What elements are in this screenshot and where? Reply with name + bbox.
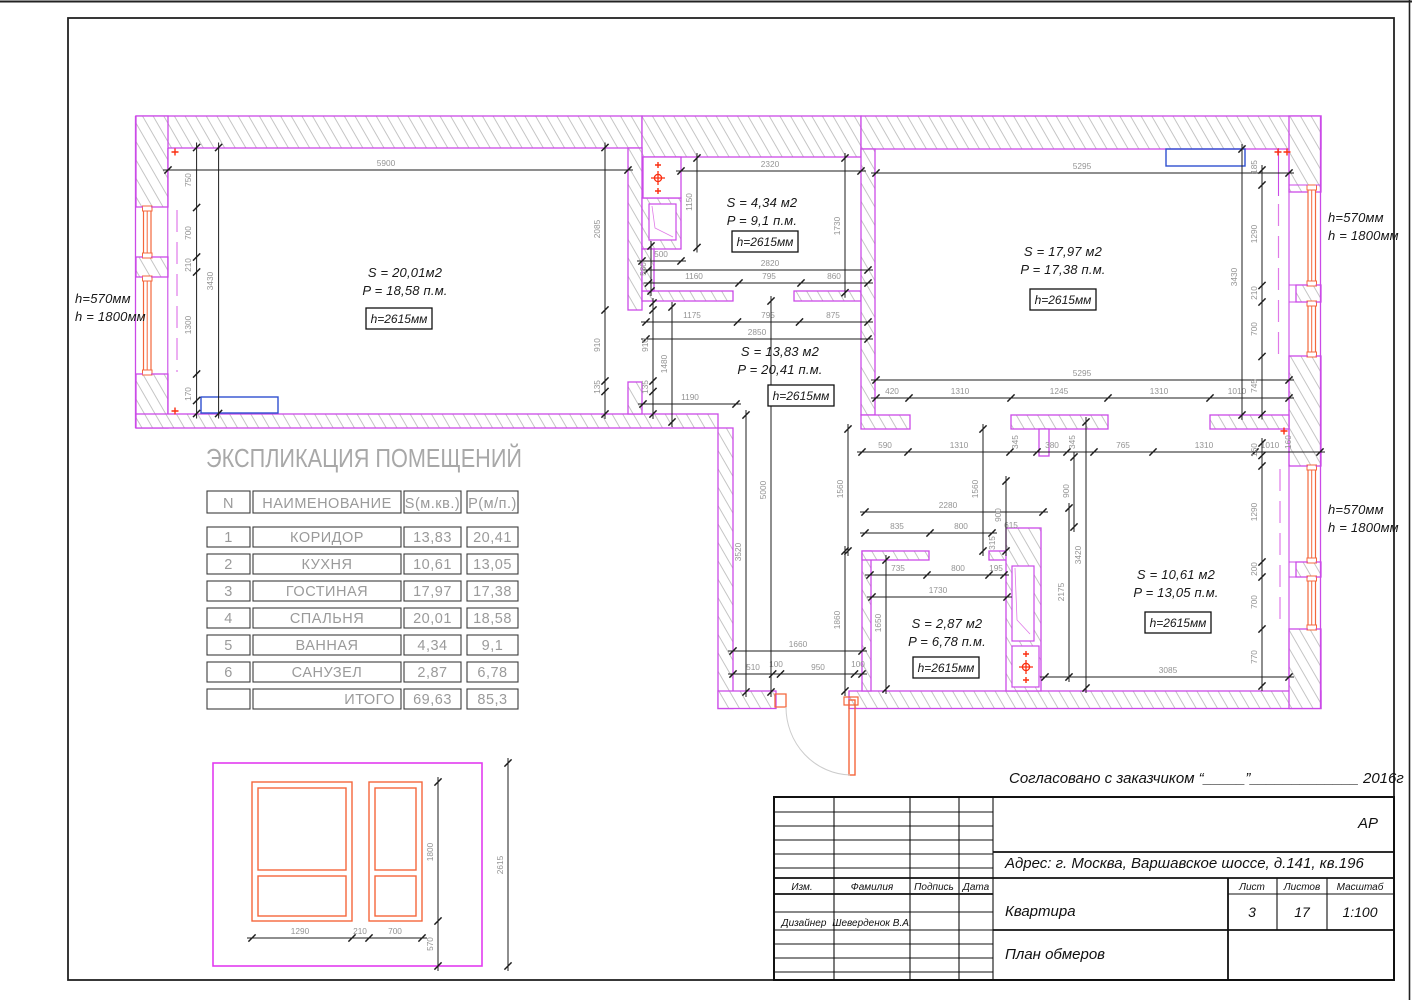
dimension 500 shaft xyxy=(637,249,686,265)
window detail dimension 2615 xyxy=(495,758,512,971)
svg-text:P = 18,58 п.м.: P = 18,58 п.м. xyxy=(362,283,447,298)
svg-text:800: 800 xyxy=(954,521,968,531)
entrance door jamb left xyxy=(775,694,786,707)
bedroom window 1 xyxy=(144,207,152,257)
svg-text:КУХНЯ: КУХНЯ xyxy=(302,557,353,573)
svg-text:2320: 2320 xyxy=(761,159,780,169)
dimension column 160 1290 200 700 770 kitchen windows xyxy=(1249,438,1266,691)
svg-text:S(м.кв.): S(м.кв.) xyxy=(405,496,460,512)
svg-text:h=2615мм: h=2615мм xyxy=(737,235,794,249)
svg-text:200: 200 xyxy=(1249,562,1259,576)
svg-text:Дизайнер: Дизайнер xyxy=(781,918,827,929)
svg-text:5: 5 xyxy=(224,638,233,654)
svg-text:700: 700 xyxy=(1249,595,1259,609)
svg-text:Адрес: г. Москва, Варшавское ш: Адрес: г. Москва, Варшавское шоссе, д.14… xyxy=(1004,855,1364,872)
dimension row 590 1310 345 380 345 765 1310 1010 xyxy=(857,435,1325,456)
right wall bottom pier xyxy=(1289,629,1321,709)
svg-text:1730: 1730 xyxy=(832,216,842,235)
svg-text:1650: 1650 xyxy=(873,613,883,632)
svg-text:580: 580 xyxy=(638,262,648,276)
left wall lower pier xyxy=(136,374,168,428)
dimension 2320 bathroom width xyxy=(676,159,866,175)
svg-text:5900: 5900 xyxy=(377,158,396,168)
dimension 3430 living height xyxy=(1229,144,1246,420)
svg-text:795: 795 xyxy=(761,310,775,320)
kitchen window niche lines xyxy=(1289,466,1321,629)
svg-text:3520: 3520 xyxy=(733,542,743,561)
wall W1 xyxy=(628,148,642,310)
svg-text:195: 195 xyxy=(989,563,1003,573)
svg-text:P = 6,78 п.м.: P = 6,78 п.м. xyxy=(908,634,986,649)
svg-text:h=2615мм: h=2615мм xyxy=(1150,616,1207,630)
svg-text:510: 510 xyxy=(746,662,760,672)
svg-text:9,1: 9,1 xyxy=(482,638,504,654)
table header row xyxy=(207,491,518,513)
svg-text:3420: 3420 xyxy=(1073,545,1083,564)
svg-text:1310: 1310 xyxy=(951,386,970,396)
svg-text:Изм.: Изм. xyxy=(791,882,812,893)
svg-text:20,41: 20,41 xyxy=(473,530,512,546)
svg-text:Согласовано с заказчиком “____: Согласовано с заказчиком “_____”________… xyxy=(1009,770,1404,787)
svg-text:1150: 1150 xyxy=(684,193,694,211)
svg-text:h=570мм: h=570мм xyxy=(1328,210,1384,225)
svg-text:2,87: 2,87 xyxy=(417,665,447,681)
wall W3 xyxy=(861,149,875,415)
svg-text:Подпись: Подпись xyxy=(914,882,954,893)
svg-text:Фамилия: Фамилия xyxy=(851,882,894,893)
svg-text:3: 3 xyxy=(224,584,233,600)
svg-text:S = 13,83 м2: S = 13,83 м2 xyxy=(741,344,820,359)
dimension 3520 corridor xyxy=(733,410,750,697)
svg-text:160: 160 xyxy=(1249,443,1259,457)
svg-text:P = 20,41 п.м.: P = 20,41 п.м. xyxy=(737,362,822,377)
svg-text:17: 17 xyxy=(1294,904,1311,920)
table row КУХНЯ xyxy=(207,554,518,574)
svg-text:1560: 1560 xyxy=(835,479,845,498)
stub xyxy=(628,382,642,414)
svg-text:3430: 3430 xyxy=(205,271,215,290)
svg-text:570: 570 xyxy=(425,937,435,951)
svg-text:1310: 1310 xyxy=(1150,386,1169,396)
svg-text:НАИМЕНОВАНИЕ: НАИМЕНОВАНИЕ xyxy=(262,496,392,512)
dimension 3420 kitchen height xyxy=(1073,417,1090,693)
svg-text:20,01: 20,01 xyxy=(413,611,452,627)
svg-text:5295: 5295 xyxy=(1073,161,1092,171)
svg-text:185: 185 xyxy=(1249,160,1259,174)
top wall above bathroom xyxy=(642,116,861,157)
dimension 3085 kitchen width xyxy=(1040,665,1294,681)
wall bar xyxy=(642,291,733,301)
svg-text:h = 1800мм: h = 1800мм xyxy=(75,309,146,324)
svg-text:ИТОГО: ИТОГО xyxy=(344,692,395,708)
svg-text:800: 800 xyxy=(951,563,965,573)
svg-text:750: 750 xyxy=(183,173,193,187)
entrance door swing arc xyxy=(786,707,850,775)
dimension 1860 xyxy=(832,546,849,696)
dimension 1480 xyxy=(659,302,676,427)
dimension column 910 135 corridor xyxy=(640,298,657,419)
svg-text:САНУЗЕЛ: САНУЗЕЛ xyxy=(292,665,363,681)
corridor left wall xyxy=(718,428,733,709)
svg-text:17,97: 17,97 xyxy=(413,584,452,600)
svg-text:1290: 1290 xyxy=(291,926,310,936)
window detail left sash xyxy=(252,782,352,921)
svg-text:170: 170 xyxy=(183,387,193,401)
svg-text:795: 795 xyxy=(762,271,776,281)
kitchen window 1 xyxy=(1308,466,1316,562)
dimension 1560 left xyxy=(835,424,852,556)
window detail right sash xyxy=(369,782,422,921)
svg-text:1:100: 1:100 xyxy=(1342,904,1377,920)
dimension 5295 living width top xyxy=(871,161,1294,177)
svg-text:1860: 1860 xyxy=(832,610,842,629)
svg-text:1160: 1160 xyxy=(685,271,703,281)
svg-text:1310: 1310 xyxy=(950,440,969,450)
svg-text:2: 2 xyxy=(224,557,233,573)
svg-text:СПАЛЬНЯ: СПАЛЬНЯ xyxy=(290,611,364,627)
dimension 580 shaft xyxy=(638,241,655,296)
shaft hatch low xyxy=(642,249,654,291)
svg-text:3085: 3085 xyxy=(1159,665,1178,675)
table row ВАННАЯ xyxy=(207,635,518,655)
svg-text:1190: 1190 xyxy=(681,392,699,402)
svg-text:КОРИДОР: КОРИДОР xyxy=(290,530,364,546)
svg-text:ГОСТИНАЯ: ГОСТИНАЯ xyxy=(286,584,368,600)
wc survey box xyxy=(1012,646,1039,687)
svg-text:210: 210 xyxy=(353,926,367,936)
svg-text:1: 1 xyxy=(224,530,233,546)
wall bar xyxy=(1011,415,1108,429)
svg-text:860: 860 xyxy=(827,271,841,281)
dimension 5295 living width bottom xyxy=(871,368,1294,384)
dimension 1190 corridor xyxy=(638,392,741,408)
svg-text:1730: 1730 xyxy=(929,585,948,595)
svg-text:100: 100 xyxy=(851,659,865,669)
dimension 900 wc door a xyxy=(993,476,1010,556)
svg-text:5000: 5000 xyxy=(758,480,768,499)
dimension column 750 700 210 1300 170 bedroom left xyxy=(183,143,200,419)
svg-text:1480: 1480 xyxy=(659,354,669,373)
svg-text:770: 770 xyxy=(1249,650,1259,664)
svg-text:875: 875 xyxy=(826,310,840,320)
dimension row 835 800 xyxy=(860,521,997,537)
svg-text:1300: 1300 xyxy=(183,315,193,334)
dimension 2280 wc width xyxy=(860,500,1048,516)
survey marks red plus xyxy=(172,149,179,156)
table row КОРИДОР xyxy=(207,527,518,547)
svg-text:2085: 2085 xyxy=(592,219,602,238)
svg-text:h=2615мм: h=2615мм xyxy=(918,661,975,675)
svg-text:P(м/п.): P(м/п.) xyxy=(468,496,517,512)
svg-text:Масштаб: Масштаб xyxy=(1337,881,1384,893)
svg-text:735: 735 xyxy=(891,563,905,573)
svg-text:5295: 5295 xyxy=(1073,368,1092,378)
svg-text:69,63: 69,63 xyxy=(413,692,452,708)
svg-text:590: 590 xyxy=(878,440,892,450)
svg-text:h=2615мм: h=2615мм xyxy=(773,389,830,403)
wc top bar 2 xyxy=(989,551,1007,560)
wc top bar xyxy=(862,551,929,560)
svg-text:S = 10,61 м2: S = 10,61 м2 xyxy=(1137,567,1216,582)
svg-text:18,58: 18,58 xyxy=(473,611,512,627)
svg-text:500: 500 xyxy=(654,249,668,259)
entrance door leaf xyxy=(849,700,855,775)
svg-text:2280: 2280 xyxy=(939,500,958,510)
svg-text:700: 700 xyxy=(183,226,193,240)
dimension column 1290 210 700 745 living windows xyxy=(1249,160,1266,420)
svg-text:900: 900 xyxy=(1061,484,1071,498)
svg-text:Лист: Лист xyxy=(1238,882,1265,893)
svg-text:1290: 1290 xyxy=(1249,502,1259,521)
svg-text:910: 910 xyxy=(592,338,602,352)
dimension 5000 corridor xyxy=(758,296,775,697)
duct xyxy=(1006,528,1041,691)
svg-text:План обмеров: План обмеров xyxy=(1005,946,1105,963)
svg-text:210: 210 xyxy=(183,258,193,272)
left wall upper pier xyxy=(136,116,168,207)
svg-text:h = 1800мм: h = 1800мм xyxy=(1328,228,1399,243)
dimension 900 wc door b xyxy=(1061,452,1078,532)
svg-text:Квартира: Квартира xyxy=(1005,903,1076,920)
right wall middle pier xyxy=(1289,356,1321,466)
svg-text:700: 700 xyxy=(1249,322,1259,336)
svg-text:2175: 2175 xyxy=(1056,582,1066,601)
svg-text:ВАННАЯ: ВАННАЯ xyxy=(296,638,359,654)
left wall pier between windows xyxy=(136,257,168,277)
table row СПАЛЬНЯ xyxy=(207,608,518,628)
svg-text:765: 765 xyxy=(1116,440,1130,450)
dimension 5900 bedroom width xyxy=(163,158,633,174)
dimension row 420 1310 1245 1310 1010 xyxy=(871,386,1294,402)
svg-text:345: 345 xyxy=(1010,435,1020,449)
svg-text:210: 210 xyxy=(1249,286,1259,300)
wc riser niche xyxy=(1012,566,1034,641)
wc left wall xyxy=(862,551,871,691)
window detail dimension 1800 570 xyxy=(425,777,442,971)
dimension 3430 bedroom height xyxy=(205,143,222,419)
svg-text:835: 835 xyxy=(890,521,904,531)
svg-text:S = 17,97 м2: S = 17,97 м2 xyxy=(1024,244,1103,259)
svg-text:1310: 1310 xyxy=(1195,440,1214,450)
top wall above bedroom xyxy=(136,116,642,148)
dimension 2820 xyxy=(643,258,873,274)
living room window 1 xyxy=(1308,186,1316,285)
bathroom shaft box with survey mark xyxy=(643,157,681,198)
dimension 1650 wc xyxy=(873,555,890,694)
svg-text:315: 315 xyxy=(987,536,997,550)
svg-text:910: 910 xyxy=(640,338,650,352)
svg-text:1560: 1560 xyxy=(970,479,980,498)
svg-text:1175: 1175 xyxy=(683,310,701,320)
svg-text:Листов: Листов xyxy=(1283,882,1320,893)
svg-text:ЭКСПЛИКАЦИЯ ПОМЕЩЕНИЙ: ЭКСПЛИКАЦИЯ ПОМЕЩЕНИЙ xyxy=(206,443,522,473)
svg-text:950: 950 xyxy=(811,662,825,672)
kitchen window 2 xyxy=(1308,577,1316,629)
living room window niche lines xyxy=(1289,185,1321,356)
svg-text:4,34: 4,34 xyxy=(417,638,447,654)
dimension 1150 bathroom xyxy=(684,153,701,253)
svg-text:1660: 1660 xyxy=(789,639,808,649)
sheet edge top xyxy=(0,1,1412,3)
svg-text:3: 3 xyxy=(1248,904,1256,920)
living room window 2 xyxy=(1308,302,1316,356)
svg-text:745: 745 xyxy=(1249,379,1259,393)
svg-text:2850: 2850 xyxy=(748,327,767,337)
dimension 1730 wc xyxy=(867,585,1012,601)
dimension 2850 xyxy=(641,327,873,343)
svg-text:6: 6 xyxy=(224,665,233,681)
table total row xyxy=(207,689,518,709)
svg-text:420: 420 xyxy=(885,386,899,396)
bedroom window niche lines xyxy=(135,207,168,374)
bottom wall seg xyxy=(718,691,776,709)
dimension row 1175 795 875 xyxy=(641,310,873,326)
dimension 1660 corridor bottom xyxy=(728,639,867,655)
svg-text:135: 135 xyxy=(640,380,650,394)
svg-text:h = 1800мм: h = 1800мм xyxy=(1328,520,1399,535)
table row САНУЗЕЛ xyxy=(207,662,518,682)
svg-text:h=2615мм: h=2615мм xyxy=(1035,293,1092,307)
svg-text:h=2615мм: h=2615мм xyxy=(371,312,428,326)
svg-text:P = 13,05 п.м.: P = 13,05 п.м. xyxy=(1133,585,1218,600)
radiator living room xyxy=(1166,149,1245,166)
table row ГОСТИНАЯ xyxy=(207,581,518,601)
dimension 1730 bathroom right xyxy=(832,153,849,298)
wall bar xyxy=(1210,415,1289,429)
svg-text:10,61: 10,61 xyxy=(413,557,452,573)
svg-text:1290: 1290 xyxy=(1249,224,1259,243)
bathroom sink niche xyxy=(649,204,676,240)
svg-text:900: 900 xyxy=(993,508,1003,522)
dimension row 1160 795 860 xyxy=(644,271,874,287)
svg-text:1800: 1800 xyxy=(425,842,435,861)
svg-text:S = 20,01м2: S = 20,01м2 xyxy=(368,265,443,280)
svg-text:2820: 2820 xyxy=(761,258,780,268)
svg-text:135: 135 xyxy=(592,380,602,394)
svg-text:17,38: 17,38 xyxy=(473,584,512,600)
svg-text:h=570мм: h=570мм xyxy=(1328,502,1384,517)
radiator bedroom xyxy=(201,397,278,413)
top wall above living room xyxy=(861,116,1321,149)
dimension row 510 100 950 100 xyxy=(728,659,867,678)
dimension 1560 right xyxy=(970,424,987,556)
svg-text:2615: 2615 xyxy=(495,855,505,874)
right wall pier between kitchen windows xyxy=(1296,562,1321,577)
svg-text:1245: 1245 xyxy=(1050,386,1069,396)
svg-text:1010: 1010 xyxy=(1228,386,1247,396)
svg-text:6,78: 6,78 xyxy=(477,665,507,681)
svg-text:АР: АР xyxy=(1357,815,1378,832)
interior wall stub below bar xyxy=(1039,429,1049,456)
right wall top pier xyxy=(1289,116,1321,192)
svg-text:P = 17,38 п.м.: P = 17,38 п.м. xyxy=(1020,262,1105,277)
svg-text:700: 700 xyxy=(388,926,402,936)
svg-text:P = 9,1 п.м.: P = 9,1 п.м. xyxy=(727,213,797,228)
svg-text:Шеверденок В.А.: Шеверденок В.А. xyxy=(832,918,911,929)
right wall pier between living windows xyxy=(1296,285,1321,302)
bedroom bottom wall xyxy=(136,414,718,428)
svg-text:13,05: 13,05 xyxy=(473,557,512,573)
dimension 2175 duct xyxy=(1056,503,1073,682)
sheet edge right xyxy=(1409,0,1411,1000)
title block xyxy=(774,797,1394,980)
svg-text:4: 4 xyxy=(224,611,233,627)
dimension row 735 800 195 xyxy=(865,563,1009,579)
svg-text:13,83: 13,83 xyxy=(413,530,452,546)
bedroom window 2 xyxy=(144,277,152,374)
svg-text:S = 4,34 м2: S = 4,34 м2 xyxy=(727,195,798,210)
window detail dimension 1290 210 700 xyxy=(247,926,427,942)
wall bar xyxy=(794,291,861,301)
svg-text:N: N xyxy=(223,496,234,512)
bottom wall seg xyxy=(849,691,1321,709)
svg-text:85,3: 85,3 xyxy=(477,692,507,708)
window detail outline xyxy=(213,763,482,966)
svg-text:380: 380 xyxy=(1045,440,1059,450)
wall L bar xyxy=(861,415,910,429)
svg-text:345: 345 xyxy=(1067,435,1077,449)
svg-text:S = 2,87 м2: S = 2,87 м2 xyxy=(912,616,983,631)
svg-text:h=570мм: h=570мм xyxy=(75,291,131,306)
svg-text:160: 160 xyxy=(1283,435,1293,449)
svg-text:3430: 3430 xyxy=(1229,267,1239,286)
dimension column 2085 910 135 bedroom right xyxy=(592,143,609,420)
shaft hatch xyxy=(642,198,681,249)
svg-text:Дата: Дата xyxy=(962,882,990,893)
